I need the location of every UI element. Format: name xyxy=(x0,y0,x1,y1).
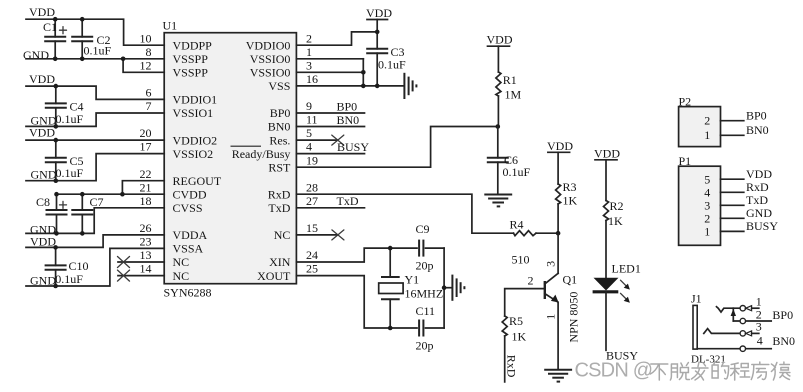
svg-text:25: 25 xyxy=(306,262,318,276)
svg-text:VDDIO0: VDDIO0 xyxy=(246,38,291,52)
svg-text:C7: C7 xyxy=(90,195,104,209)
P1 pin number 2 xyxy=(704,211,710,225)
svg-text:VSS: VSS xyxy=(268,79,290,93)
svg-text:510: 510 xyxy=(512,252,530,266)
wire pin 24 XIN to crystal top rail xyxy=(296,248,417,262)
svg-text:VSSIO0: VSSIO0 xyxy=(250,52,291,66)
svg-text:5: 5 xyxy=(306,126,312,140)
svg-text:VSSA: VSSA xyxy=(173,242,204,256)
resistor R3 1K (vertical) xyxy=(556,180,578,233)
wire pin 22 REGOUT down to CVDD rail xyxy=(122,181,164,195)
svg-text:20: 20 xyxy=(140,126,152,140)
capacitor C1 (polarized) xyxy=(43,19,67,59)
svg-text:28: 28 xyxy=(306,180,318,194)
svg-text:CVSS: CVSS xyxy=(173,201,203,215)
svg-text:Y1: Y1 xyxy=(405,273,420,287)
svg-text:18: 18 xyxy=(140,194,152,208)
node label GND at P1 xyxy=(746,206,772,220)
svg-text:NC: NC xyxy=(173,255,190,269)
svg-text:BP0: BP0 xyxy=(337,99,358,113)
svg-text:VDDPP: VDDPP xyxy=(173,38,213,52)
node label TxD xyxy=(337,194,359,208)
svg-text:4: 4 xyxy=(757,333,763,347)
node label BN0 at J1 xyxy=(772,334,795,348)
wire pin 15 NC stub xyxy=(296,234,338,236)
node label BN0 at P2 xyxy=(746,123,769,137)
svg-text:Q1: Q1 xyxy=(563,273,578,287)
Q1 part label NPN 8050 (rotated) xyxy=(566,292,580,343)
capacitor C10 0.1uF xyxy=(45,247,89,286)
svg-text:14: 14 xyxy=(140,262,152,276)
J1 contact circle row 4 xyxy=(740,346,745,351)
svg-text:TxD: TxD xyxy=(337,194,359,208)
connector J1 body bar xyxy=(693,305,697,349)
wire P1 pin 3 TxD xyxy=(721,204,744,206)
svg-text:VDD: VDD xyxy=(30,234,56,248)
svg-text:VDD: VDD xyxy=(366,6,392,20)
wire pin 4 Ready/Busy BUSY net xyxy=(296,153,364,155)
svg-text:VSSIO0: VSSIO0 xyxy=(250,66,291,80)
connector P1 body xyxy=(679,166,721,245)
resistor R5 1K (vertical) xyxy=(502,314,526,382)
svg-text:20p: 20p xyxy=(416,258,434,272)
wire P1 pin 4 RxD xyxy=(721,191,744,193)
svg-text:1K: 1K xyxy=(563,194,578,208)
no-connect X on pin 5 xyxy=(332,135,344,145)
svg-text:0.1uF: 0.1uF xyxy=(55,272,83,286)
svg-text:REGOUT: REGOUT xyxy=(173,174,222,188)
wire pin 25 XOUT to crystal bottom rail xyxy=(296,276,417,328)
junction dots block 1 xyxy=(53,17,125,61)
svg-text:Ready/Busy: Ready/Busy xyxy=(232,147,291,161)
svg-text:C8: C8 xyxy=(36,195,50,209)
IC U1 reference designator label xyxy=(163,19,178,33)
connector P2 body xyxy=(679,107,721,147)
svg-text:3: 3 xyxy=(704,198,710,212)
svg-text:6: 6 xyxy=(146,86,152,100)
svg-text:5: 5 xyxy=(704,172,710,186)
svg-text:BP0: BP0 xyxy=(746,108,767,122)
resistor R2 1K (vertical) xyxy=(604,199,624,278)
svg-text:15: 15 xyxy=(306,221,318,235)
overline on Ready part of Ready/Busy pin name xyxy=(231,145,262,147)
node GND block 2 xyxy=(31,114,57,128)
svg-text:1: 1 xyxy=(756,294,762,308)
svg-text:TxD: TxD xyxy=(746,193,768,207)
P2 pin number 2 xyxy=(704,113,710,127)
node label TxD at P1 xyxy=(746,193,768,207)
svg-text:RxD: RxD xyxy=(268,187,291,201)
node label RxD at P1 xyxy=(746,180,769,194)
watermark Chinese characters (stroke art) xyxy=(650,362,790,380)
svg-text:R3: R3 xyxy=(563,180,577,194)
watermark CSDN text xyxy=(575,359,653,381)
junction dots block 2 xyxy=(54,84,59,129)
svg-text:R1: R1 xyxy=(503,73,517,87)
wire GND to pin 17 VSSIO2 xyxy=(26,154,164,181)
node GND (ground rail top-left block 1) xyxy=(23,48,49,62)
svg-text:22: 22 xyxy=(140,167,152,181)
svg-text:0.1uF: 0.1uF xyxy=(84,44,112,58)
capacitor C6 0.1uF xyxy=(487,127,531,194)
connector P2 designator xyxy=(679,95,692,109)
svg-text:R4: R4 xyxy=(510,218,524,232)
node GND block 3 xyxy=(31,168,57,182)
svg-text:1K: 1K xyxy=(512,330,527,344)
svg-text:17: 17 xyxy=(140,140,152,154)
wire J1 row 4 BN0 from body xyxy=(697,348,771,350)
svg-text:VDDA: VDDA xyxy=(173,228,208,242)
svg-text:21: 21 xyxy=(140,180,152,194)
node label BUSY at P1 xyxy=(746,219,778,233)
svg-text:R5: R5 xyxy=(509,314,523,328)
no-connect X on pin 14 xyxy=(118,270,130,281)
node GND block 5 xyxy=(30,273,56,287)
svg-text:1M: 1M xyxy=(505,88,522,102)
wire pin 16 VSS to earth ground xyxy=(296,85,403,87)
node label BP0 xyxy=(337,99,358,113)
svg-text:GND: GND xyxy=(31,168,57,182)
svg-text:2: 2 xyxy=(704,211,710,225)
svg-text:8: 8 xyxy=(146,45,152,59)
junction dots crystal network xyxy=(388,246,447,331)
svg-text:RST: RST xyxy=(268,160,291,174)
connector P1 designator xyxy=(679,154,692,168)
svg-text:3: 3 xyxy=(306,58,312,72)
wire CVDD rail pin 21 xyxy=(57,193,165,195)
wire NC pin 13 stub xyxy=(118,261,164,263)
svg-text:VDD: VDD xyxy=(594,147,620,161)
svg-text:3: 3 xyxy=(756,320,762,334)
J1 pin number 1 xyxy=(756,294,762,308)
wire P1 pin 5 VDD xyxy=(721,178,744,180)
wire pin 19 RST to R1/C6 junction xyxy=(296,127,497,168)
svg-text:SYN6288: SYN6288 xyxy=(164,286,212,300)
J1 open arrowhead row 3 xyxy=(746,331,759,336)
P1 pin number 5 xyxy=(704,172,710,186)
wire GND to pin 23 VSSA xyxy=(26,248,164,286)
P1 pin number 1 xyxy=(704,225,710,239)
svg-text:NC: NC xyxy=(173,269,190,283)
junction dots block 3 xyxy=(54,138,59,183)
wire pin 11 BN0 net xyxy=(296,126,364,128)
power symbol VDD above R3 xyxy=(547,139,573,184)
svg-text:24: 24 xyxy=(306,248,318,262)
ground (earth style) right of crystal xyxy=(452,275,464,301)
resistor R1 1M (vertical) xyxy=(496,72,522,127)
wire vertical joining pins 1,3 to VSS ground wire xyxy=(362,59,364,86)
LED1 diode xyxy=(593,261,641,350)
svg-text:RxD: RxD xyxy=(746,180,769,194)
svg-text:0.1uF: 0.1uF xyxy=(56,112,84,126)
wire pin 5 Res. stub xyxy=(296,139,337,141)
svg-text:3: 3 xyxy=(544,261,558,267)
svg-text:16MHZ: 16MHZ xyxy=(405,287,444,301)
wire VDD to pin 26 VDDA xyxy=(26,235,164,248)
svg-text:J1: J1 xyxy=(691,291,702,305)
svg-text:C1: C1 xyxy=(43,20,57,34)
svg-text:CSDN @: CSDN @ xyxy=(575,359,653,381)
LED1 light emission arrows xyxy=(621,280,630,303)
Q1 designator label xyxy=(563,273,578,287)
wire P2 pin 2 BP0 xyxy=(721,120,744,122)
svg-text:VDD: VDD xyxy=(547,139,573,153)
capacitor C9 20p (horizontal) xyxy=(416,222,445,272)
wire pin 9 BP0 net xyxy=(296,112,364,114)
wire pin 1 VSSIO0 xyxy=(296,58,363,60)
wire GND to pin 7 VSSIO1 xyxy=(26,113,164,126)
J1 open arrowhead row 1 xyxy=(746,306,759,311)
IC U1 part number label SYN6288 xyxy=(164,286,212,300)
connector J1 designator xyxy=(691,291,702,305)
J1 contact circle row 2 xyxy=(740,318,745,323)
wire GND branch to pin 12 VSSPP xyxy=(123,59,164,73)
Q1 pin number 2 base xyxy=(528,273,534,287)
wire GND rail to pin 8 VSSPP xyxy=(26,58,164,60)
capacitor C5 0.1uF xyxy=(45,140,84,181)
ground (bar style) under Q1 emitter xyxy=(544,370,572,382)
svg-text:BN0: BN0 xyxy=(337,113,360,127)
wire VDD rail to pin 10 VDDPP xyxy=(26,19,164,45)
svg-text:1K: 1K xyxy=(608,214,623,228)
J1 tip contact squiggle row 1 xyxy=(717,307,741,312)
wire J1 row 2 BP0 xyxy=(733,320,771,322)
svg-text:U1: U1 xyxy=(163,19,178,33)
IC U1 right-side pin names xyxy=(232,38,291,282)
svg-text:TxD: TxD xyxy=(268,201,290,215)
J1 pin number 3 xyxy=(756,320,762,334)
svg-text:BN0: BN0 xyxy=(746,123,769,137)
svg-text:4: 4 xyxy=(704,185,710,199)
svg-text:VDD: VDD xyxy=(29,5,55,19)
svg-text:19: 19 xyxy=(306,153,318,167)
node GND block 4 xyxy=(30,222,56,236)
J1 contact circle row 1 xyxy=(740,306,745,311)
svg-text:2: 2 xyxy=(306,31,312,45)
wire VDD to pin 6 VDDIO1 xyxy=(26,86,164,99)
node label BN0 xyxy=(337,113,360,127)
svg-text:CVDD: CVDD xyxy=(173,187,207,201)
svg-text:XIN: XIN xyxy=(269,255,291,269)
Q1 pin number 1 emitter xyxy=(544,314,558,320)
svg-text:12: 12 xyxy=(140,58,152,72)
svg-text:NC: NC xyxy=(274,228,291,242)
svg-text:0.1uF: 0.1uF xyxy=(503,165,531,179)
no-connect X on pin 15 xyxy=(332,230,344,240)
svg-text:R2: R2 xyxy=(610,199,624,213)
svg-text:LED1: LED1 xyxy=(612,261,641,275)
P2 pin number 1 xyxy=(704,128,710,142)
crystal Y1 16MHZ xyxy=(379,248,443,328)
svg-text:GND: GND xyxy=(746,206,772,220)
svg-text:23: 23 xyxy=(140,235,152,249)
capacitor C8 (polarized) xyxy=(36,194,68,233)
no-connect X on pin 13 xyxy=(118,257,130,268)
svg-text:VDDIO2: VDDIO2 xyxy=(173,133,218,147)
transistor Q1 NPN 8050 xyxy=(545,233,559,369)
svg-text:Res.: Res. xyxy=(269,133,290,147)
node VDD block 5 xyxy=(30,234,56,248)
svg-text:VDD: VDD xyxy=(487,33,513,47)
svg-text:C10: C10 xyxy=(69,259,89,273)
svg-text:DL-321: DL-321 xyxy=(691,353,726,365)
svg-text:1: 1 xyxy=(704,225,710,239)
svg-text:VSSIO2: VSSIO2 xyxy=(173,147,214,161)
wire pin 2 VDDIO0 up to VDD/C3 node xyxy=(296,32,377,45)
svg-text:20p: 20p xyxy=(416,338,434,352)
ground (bar style) under C6 xyxy=(484,195,512,207)
svg-text:NPN 8050: NPN 8050 xyxy=(566,292,580,343)
capacitor C7 xyxy=(71,194,103,233)
wire VDD to pin 20 VDDIO2 xyxy=(26,139,164,141)
svg-text:RxD: RxD xyxy=(505,355,519,378)
svg-text:0.1uF: 0.1uF xyxy=(56,166,84,180)
svg-text:VDDIO1: VDDIO1 xyxy=(173,93,218,107)
node label BP0 at P2 xyxy=(746,108,767,122)
capacitor C3 0.1uF xyxy=(366,45,406,86)
junction dots C3/VSS net xyxy=(361,30,380,89)
IC U1 right pin numbers xyxy=(306,31,318,275)
svg-text:1: 1 xyxy=(306,45,312,59)
resistor R4 510 (horizontal) xyxy=(510,218,559,267)
svg-text:10: 10 xyxy=(140,31,152,45)
svg-text:VSSPP: VSSPP xyxy=(173,52,209,66)
svg-text:2: 2 xyxy=(528,273,534,287)
J1 switch arm with up arrow xyxy=(731,308,736,321)
wire P1 pin 1 BUSY xyxy=(721,230,744,232)
svg-text:C9: C9 xyxy=(416,222,430,236)
capacitor C2 0.1uF xyxy=(71,19,111,59)
wire pin 28 RxD to R4 xyxy=(296,194,513,233)
svg-text:26: 26 xyxy=(140,221,152,235)
junction dot RST/R1/C6 xyxy=(496,124,501,129)
wire P2 pin 1 BN0 xyxy=(721,134,744,136)
J1 pin number 2 xyxy=(756,308,762,322)
svg-text:4: 4 xyxy=(306,140,312,154)
capacitor C11 20p (horizontal) xyxy=(416,304,445,353)
svg-text:VSSIO1: VSSIO1 xyxy=(173,106,214,120)
svg-text:C11: C11 xyxy=(416,304,436,318)
svg-text:16: 16 xyxy=(306,72,318,86)
power symbol VDD above R2 xyxy=(594,147,620,201)
IC U1 left-side pin names xyxy=(173,38,222,282)
Q1 pin number 3 collector xyxy=(544,261,558,267)
junction dots block 4 xyxy=(54,192,125,236)
capacitor C4 0.1uF xyxy=(45,86,84,126)
node label BUSY at LED bottom xyxy=(606,348,638,362)
J1 pin number 4 xyxy=(757,333,763,347)
svg-text:VSSPP: VSSPP xyxy=(173,66,209,80)
svg-text:9: 9 xyxy=(306,99,312,113)
node VDD block 3 xyxy=(29,126,55,140)
J1 part label DL-321 xyxy=(691,353,726,365)
svg-text:BP0: BP0 xyxy=(270,106,291,120)
svg-text:GND: GND xyxy=(23,48,49,62)
svg-text:BP0: BP0 xyxy=(772,308,793,322)
J1 ring contact squiggle row 3 xyxy=(704,329,740,334)
svg-text:0.1uF: 0.1uF xyxy=(378,57,406,71)
svg-text:1: 1 xyxy=(544,314,558,320)
node VDD block 2 xyxy=(29,72,55,86)
node VDD (power rail top-left block 1) xyxy=(29,5,55,19)
power symbol VDD above R1 xyxy=(487,33,513,72)
wire crystal right rail xyxy=(444,248,451,328)
svg-text:VDD: VDD xyxy=(29,72,55,86)
wire NC pin 14 stub xyxy=(118,275,164,277)
wire Q1 base to R5 xyxy=(505,289,545,316)
wire pin 27 TxD net xyxy=(296,207,364,209)
P1 pin number 4 xyxy=(704,185,710,199)
svg-text:7: 7 xyxy=(146,99,152,113)
wire pin 3 VSSIO0 xyxy=(296,71,363,73)
J1 contact circle row 3 xyxy=(740,331,745,336)
op-amp U1 SYN6288 IC body xyxy=(164,33,296,284)
svg-text:VDD: VDD xyxy=(746,167,772,181)
svg-text:13: 13 xyxy=(140,248,152,262)
ground (earth style) near C3 xyxy=(404,73,416,99)
svg-text:XOUT: XOUT xyxy=(257,269,291,283)
svg-text:BUSY: BUSY xyxy=(337,140,369,154)
svg-text:1: 1 xyxy=(704,128,710,142)
P1 pin number 3 xyxy=(704,198,710,212)
IC U1 left pin numbers xyxy=(140,31,152,275)
node label RxD (rotated) at R5 bottom xyxy=(505,355,519,378)
junction dots block 5 xyxy=(53,245,58,288)
svg-text:BN0: BN0 xyxy=(268,120,291,134)
svg-text:11: 11 xyxy=(306,113,318,127)
node label VDD at P1 xyxy=(746,167,772,181)
svg-text:27: 27 xyxy=(306,194,318,208)
power symbol VDD above C3 xyxy=(366,6,392,49)
node label BUSY xyxy=(337,140,369,154)
svg-text:BN0: BN0 xyxy=(772,334,795,348)
wire GND rail to pin 18 CVSS xyxy=(26,208,164,234)
node label BP0 at J1 xyxy=(772,308,793,322)
junction dot R3/R4/collector xyxy=(556,231,561,236)
svg-text:2: 2 xyxy=(704,113,710,127)
svg-text:BUSY: BUSY xyxy=(746,219,778,233)
svg-text:VDD: VDD xyxy=(29,126,55,140)
wire P1 pin 2 GND xyxy=(721,217,744,219)
